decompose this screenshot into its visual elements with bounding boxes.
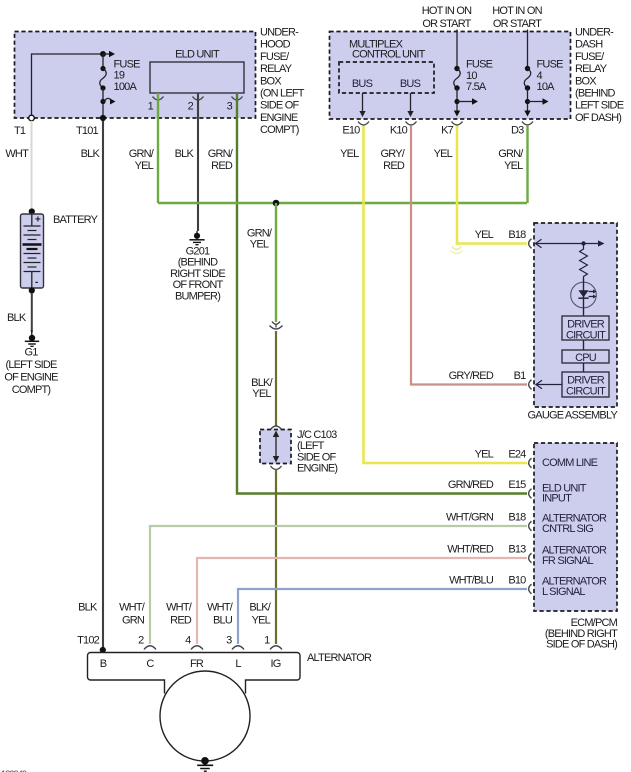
svg-text:YEL: YEL [250,239,269,251]
svg-text:GRY/: GRY/ [381,148,406,160]
svg-text:OF DASH): OF DASH) [575,112,621,124]
svg-text:COMPT): COMPT) [260,124,299,136]
svg-text:SIDE OF: SIDE OF [297,451,336,463]
alternator pin 1 (IG) [264,635,282,650]
ECM pin B10 ALTERNATOR L SIGNAL [449,575,607,599]
connector pin K10 [390,122,417,137]
terminal T102 [77,635,106,654]
CPU box [562,350,609,364]
driver circuit box 2 [562,372,609,398]
svg-text:RELAY: RELAY [575,63,608,75]
underhood fuse/relay box [15,27,305,137]
wire GRY/RED K10 to gauge B1 [381,126,528,385]
svg-text:10A: 10A [537,81,556,93]
terminal T101 [76,115,106,137]
svg-text:7.5A: 7.5A [466,81,487,93]
svg-text:LEFT SIDE: LEFT SIDE [575,100,624,112]
LED charge indicator [571,278,597,316]
svg-text:CNTRL SIG: CNTRL SIG [542,523,593,535]
ground G1 [4,330,58,396]
gauge internal top wire with arrows [536,239,605,247]
svg-text:RIGHT SIDE: RIGHT SIDE [170,268,225,280]
wire BLK/YEL connector to J/C C103 [251,331,276,426]
svg-text:BLK: BLK [175,148,195,160]
inline connector (wire break) [270,322,283,330]
alternator pin 4 (FR) [185,635,203,650]
svg-text:L SIGNAL: L SIGNAL [542,586,585,598]
ELD unit [150,49,244,94]
svg-text:(LEFT: (LEFT [297,440,325,452]
svg-text:IG: IG [270,658,280,670]
wire WHT/RED alternator FR to ECM B13 [166,558,527,644]
gauge pin B1 entry [449,370,562,389]
svg-text:UNDER-: UNDER- [260,27,299,39]
svg-text:K7: K7 [441,125,454,137]
svg-text:FUSE: FUSE [114,59,141,71]
svg-text:(ON LEFT: (ON LEFT [260,88,305,100]
svg-text:BLK: BLK [81,148,101,160]
svg-text:3: 3 [227,101,233,113]
ECM pin B13 ALTERNATOR FR SIGNAL [447,544,607,568]
svg-text:G201: G201 [186,246,210,258]
document id watermark [1,769,27,772]
svg-text:YEL: YEL [252,614,271,626]
svg-text:BOX: BOX [575,75,597,87]
svg-text:E10: E10 [342,125,360,137]
wire CPU to driver2 [583,363,585,372]
svg-text:D3: D3 [511,125,524,137]
HOT IN ON label for fuse 10 [422,5,472,30]
svg-text:CPU: CPU [575,352,597,364]
svg-text:(BEHIND: (BEHIND [575,88,615,100]
svg-text:1: 1 [264,635,270,647]
svg-text:L: L [235,658,241,670]
svg-text:YEL: YEL [135,160,154,172]
svg-text:B18: B18 [508,512,526,524]
svg-text:YEL: YEL [475,449,494,461]
wire WHT T1 to battery [5,121,31,211]
svg-text:(LEFT SIDE: (LEFT SIDE [5,359,57,371]
svg-text:OR START: OR START [422,18,471,30]
svg-text:B10: B10 [508,575,526,587]
svg-text:GAUGE ASSEMBLY: GAUGE ASSEMBLY [528,410,619,422]
connector pin E10 [342,122,369,137]
svg-text:SIDE OF: SIDE OF [260,100,299,112]
svg-text:HOT IN ON: HOT IN ON [422,5,472,17]
svg-text:GRN/: GRN/ [208,148,234,160]
multiplex control unit [339,38,434,93]
svg-text:BLK: BLK [7,312,27,324]
svg-text:2: 2 [188,101,194,113]
svg-text:COMM LINE: COMM LINE [542,457,598,469]
svg-text:HOOD: HOOD [260,39,291,51]
svg-text:INPUT: INPUT [542,493,572,505]
svg-text:BLK: BLK [78,602,98,614]
svg-text:B1: B1 [514,370,527,382]
ECM pin B18 ALTERNATOR CNTRL SIG [446,512,607,536]
svg-text:RELAY: RELAY [260,63,293,75]
svg-text:RED: RED [211,160,233,172]
fuse F10 7.5A [454,30,493,117]
svg-text:1: 1 [148,101,154,113]
svg-text:ENGINE: ENGINE [260,112,298,124]
wire GRN/YEL bus horizontal [158,202,527,204]
resistor (warning lamp series) [580,244,588,279]
svg-text:C: C [146,658,154,670]
fuse F19 100A [100,54,140,118]
svg-text:OF FRONT: OF FRONT [173,279,224,291]
svg-text:FUSE: FUSE [537,59,564,71]
svg-text:K10: K10 [390,125,408,137]
connector pin K7 [441,122,462,137]
alternator pin 2 (C) [138,635,156,650]
svg-text:RED: RED [170,614,192,626]
svg-text:YEL: YEL [475,229,494,241]
svg-text:(BEHIND: (BEHIND [178,257,218,269]
BUS output arrow E10 [359,93,365,117]
svg-text:T101: T101 [76,125,99,137]
ECM/PCM box [534,443,618,651]
svg-text:WHT/: WHT/ [207,602,234,614]
wire GRN/YEL junction down to connector [247,203,276,322]
alternator pin 3 (L) [226,635,244,650]
svg-text:WHT/: WHT/ [166,602,193,614]
svg-text:GRN/RED: GRN/RED [448,479,494,491]
svg-text:FR SIGNAL: FR SIGNAL [542,555,594,567]
ECM pin E15 ELD UNIT INPUT [448,479,587,505]
svg-text:WHT: WHT [5,148,29,160]
fuse F4 10A [524,30,563,117]
svg-text:SIDE OF DASH): SIDE OF DASH) [546,639,617,651]
svg-text:WHT/BLU: WHT/BLU [449,575,494,587]
wire YEL K7 to gauge B18 [434,126,527,254]
connector pin D3 [511,122,533,137]
wire WHT/GRN alternator C to ECM B18 [119,526,527,644]
svg-text:T1: T1 [14,125,26,137]
svg-text:BLK/: BLK/ [251,377,273,389]
junction node on green bus [273,200,280,207]
svg-text:2: 2 [138,635,144,647]
svg-text:ENGINE): ENGINE) [297,463,337,475]
wire from T1 up to fuse 19 (inside box) [32,51,116,118]
svg-text:HOT IN ON: HOT IN ON [492,5,542,17]
ELD pin 1 [148,97,164,113]
svg-text:10: 10 [466,70,477,82]
svg-text:OF ENGINE: OF ENGINE [4,372,58,384]
svg-text:E15: E15 [508,479,526,491]
svg-text:4: 4 [185,635,191,647]
svg-text:19: 19 [114,70,125,82]
svg-text:FUSE/: FUSE/ [575,51,605,63]
wire BLK/YEL J/C C103 to alternator IG [249,469,276,644]
svg-text:ELD UNIT: ELD UNIT [175,49,220,61]
svg-text:OR START: OR START [493,18,542,30]
svg-text:FUSE: FUSE [466,59,493,71]
wire WHT/BLU alternator L to ECM B10 [207,589,527,644]
wire BLK ELD pin 2 to G201 [175,93,198,231]
battery [21,208,99,293]
svg-text:CIRCUIT: CIRCUIT [566,330,606,342]
wire driver1 to CPU [583,340,585,350]
HOT IN ON label for fuse 4 [492,5,542,30]
svg-text:BUMPER): BUMPER) [175,290,220,302]
svg-text:GRN: GRN [122,614,145,626]
svg-text:WHT/GRN: WHT/GRN [446,512,494,524]
svg-text:FR: FR [190,658,204,670]
svg-text:B13: B13 [508,544,526,556]
svg-text:G1: G1 [24,347,38,359]
BUS output arrow K10 [407,93,413,117]
svg-text:YEL: YEL [252,388,271,400]
wire BLK battery to G1 [7,293,32,332]
ELD pin 2 [188,97,204,113]
svg-text:WHT/RED: WHT/RED [447,544,494,556]
svg-text:YEL: YEL [504,160,523,172]
svg-text:100A: 100A [114,81,138,93]
svg-text:BATTERY: BATTERY [53,214,99,226]
svg-text:BLK/: BLK/ [249,602,271,614]
ECM pin E24 COMM LINE [475,449,598,470]
wire GRN/YEL D3 to green bus [498,126,527,203]
svg-text:B18: B18 [508,229,526,241]
svg-text:DASH: DASH [575,39,603,51]
svg-text:GRN/: GRN/ [247,227,273,239]
svg-text:CIRCUIT: CIRCUIT [566,386,606,398]
svg-text:GRY/RED: GRY/RED [449,370,494,382]
svg-text:4: 4 [537,70,543,82]
underdash fuse/relay box [330,27,624,124]
svg-text:BLU: BLU [213,614,233,626]
alternator [88,652,372,761]
junction connector J/C C103 [260,426,337,475]
driver circuit box 1 [562,316,609,342]
ELD pin 3 [227,97,243,113]
gauge pin B18 entry [475,229,532,248]
wire YEL E10 to ECM E24 [340,126,527,463]
ground G201 [170,231,225,302]
wire GRN/YEL ELD pin 1 [129,93,158,203]
svg-text:B: B [100,658,107,670]
svg-text:WHT/: WHT/ [119,602,146,614]
wire BLK T101 to T102 [78,121,103,649]
svg-text:J/C C103: J/C C103 [297,429,337,441]
svg-text:RED: RED [383,160,405,172]
svg-text:E24: E24 [508,449,526,461]
svg-text:GRN/: GRN/ [498,148,524,160]
svg-text:YEL: YEL [434,148,453,160]
svg-text:3: 3 [226,635,232,647]
svg-text:ALTERNATOR: ALTERNATOR [307,652,372,664]
svg-text:YEL: YEL [340,148,359,160]
svg-text:GRN/: GRN/ [129,148,155,160]
terminal T1 [14,115,34,137]
svg-text:CONTROL UNIT: CONTROL UNIT [352,49,426,61]
svg-text:BUS: BUS [400,78,421,90]
gauge assembly box [528,223,619,422]
svg-text:FUSE/: FUSE/ [260,51,290,63]
svg-text:COMPT): COMPT) [12,384,51,396]
alternator ground [197,757,213,771]
svg-text:BUS: BUS [352,78,373,90]
wire GRN/RED ELD pin 3 to ECM E15 [208,93,527,494]
svg-text:UNDER-: UNDER- [575,27,614,39]
svg-text:T102: T102 [77,635,100,647]
svg-text:BOX: BOX [260,75,282,87]
